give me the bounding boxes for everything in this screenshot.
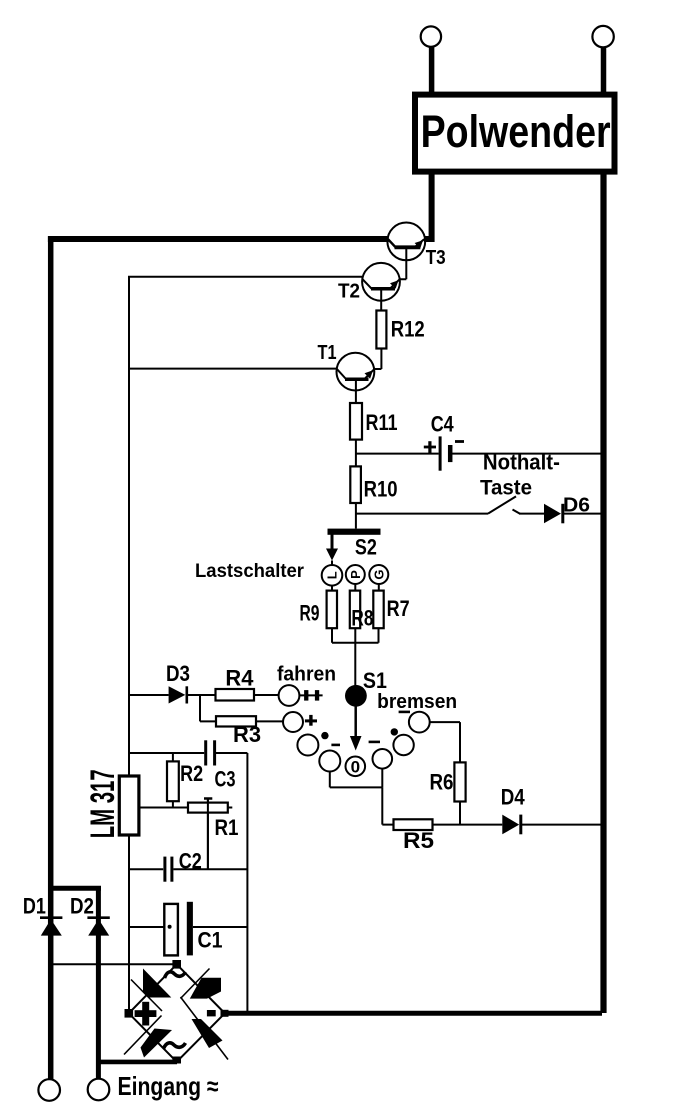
contact arc 3 xyxy=(297,735,318,756)
wire R9 R7 bottom U join xyxy=(332,628,379,643)
bridge tilde bottom xyxy=(164,1043,186,1049)
resistor R10 xyxy=(350,466,361,503)
regulator LM317 xyxy=(119,776,139,835)
wire inner right rail xyxy=(246,753,248,1011)
resistor R9 xyxy=(327,591,337,629)
contact P (Lastschalter) xyxy=(346,565,365,584)
bridge diode SW xyxy=(141,1029,173,1058)
svg-text:S1: S1 xyxy=(363,668,387,693)
wire T1 emitter to R11 xyxy=(355,379,357,403)
wire R10 to S2 xyxy=(355,503,357,529)
wire left supply rail top horizontal xyxy=(48,236,389,242)
svg-text:C1: C1 xyxy=(198,928,223,953)
mark dot left xyxy=(321,732,328,739)
capacitor C3 xyxy=(206,740,215,765)
switch S1 arrow xyxy=(350,707,362,751)
wire C4 row right xyxy=(452,453,601,455)
contact arc 6 xyxy=(393,735,413,755)
bridge diode SE xyxy=(192,1019,223,1048)
svg-text:D6: D6 xyxy=(563,495,590,517)
wire D1-D2 top connector xyxy=(48,886,101,891)
wire node base rail (T2/T1 base vertical rail x=129) xyxy=(129,277,363,1012)
svg-text:Polwender: Polwender xyxy=(421,106,611,157)
svg-text:D4: D4 xyxy=(501,785,526,810)
svg-text:C4: C4 xyxy=(431,412,455,437)
mark dash right xyxy=(399,711,410,714)
wire S1 lower contacts U join xyxy=(330,769,383,788)
transistor T3 xyxy=(387,223,425,261)
svg-text:D1: D1 xyxy=(23,894,46,919)
contact G (Lastschalter) xyxy=(369,565,388,584)
svg-text:R2: R2 xyxy=(180,761,203,786)
wire R5 to D4 xyxy=(433,824,503,826)
mark dot right xyxy=(391,728,398,735)
resistor R12 xyxy=(376,311,386,349)
svg-text:C3: C3 xyxy=(215,767,236,792)
bridge node right xyxy=(221,1010,229,1017)
svg-text:Eingang ≈: Eingang ≈ xyxy=(118,1071,219,1101)
capacitor C4 xyxy=(424,436,464,470)
transistor T1 xyxy=(337,353,375,391)
wire C1 row xyxy=(129,926,247,928)
wire LM317 adj row xyxy=(140,807,189,809)
wire R11 to R10 xyxy=(355,440,357,467)
svg-text:Nothalt-: Nothalt- xyxy=(483,450,560,475)
diode D6 xyxy=(544,504,563,524)
svg-text:P: P xyxy=(348,570,363,579)
wire bridge bottom to D2 xyxy=(98,1060,177,1065)
bridge plus xyxy=(135,1002,157,1026)
wire C4 row left xyxy=(356,453,439,455)
wire contact stubs to R9 R8 R7 xyxy=(332,584,379,590)
svg-text:R1: R1 xyxy=(215,815,239,840)
bridge rectifier diamond xyxy=(129,964,225,1062)
wire D6 to bus xyxy=(564,513,601,515)
wire D2 rail xyxy=(96,886,101,1078)
mark dash left xyxy=(331,744,340,747)
svg-text:D2: D2 xyxy=(70,894,94,919)
resistor R2 xyxy=(167,761,179,801)
wire left supply rail vertical xyxy=(48,237,54,1080)
wire C3 row xyxy=(129,752,247,754)
switch Nothalt-Taste blade xyxy=(488,496,516,513)
capacitor C2 xyxy=(165,857,172,882)
transistor T2 xyxy=(362,263,400,301)
svg-text:R10: R10 xyxy=(364,476,398,501)
contact row2 xyxy=(283,712,303,732)
switch S2 arrow xyxy=(326,535,338,561)
switch S2 wiper bar xyxy=(328,529,381,535)
wire fahren contact symbol row1 xyxy=(300,694,323,696)
wire R1 right stub xyxy=(228,807,233,809)
svg-text:fahren: fahren xyxy=(277,664,336,686)
contact arc 5 xyxy=(373,749,393,769)
resistor R6 xyxy=(454,762,465,801)
wire D4 to bus xyxy=(522,824,601,826)
terminal bottom-left xyxy=(38,1079,60,1101)
bridge minus xyxy=(207,1010,216,1016)
wire Polwender top pins xyxy=(432,47,604,93)
svg-text:L: L xyxy=(325,571,340,579)
contact L (Lastschalter) xyxy=(322,565,343,586)
bridge diode wire NW xyxy=(131,980,162,1012)
diode D2 xyxy=(87,918,109,936)
resistor R4 xyxy=(216,689,255,701)
wire T2 emitter to R12 xyxy=(380,289,382,311)
wire R2 stubs xyxy=(172,753,174,808)
contact bremsen xyxy=(409,712,430,733)
wire bridge top AC input xyxy=(52,963,173,965)
wire R3 to contact row2 xyxy=(256,720,283,722)
svg-text:S2: S2 xyxy=(355,534,377,559)
resistor R3 xyxy=(216,716,256,726)
contact symbol plus row2 xyxy=(305,715,317,726)
resistor R11 xyxy=(350,403,362,440)
wire S2 arrow to contact L xyxy=(331,561,333,566)
svg-text:R11: R11 xyxy=(366,410,398,435)
resistor R7 xyxy=(373,591,383,629)
terminal bottom-right xyxy=(88,1079,110,1101)
svg-text:R6: R6 xyxy=(430,770,454,795)
wire down to R5 xyxy=(382,787,393,824)
svg-text:R3: R3 xyxy=(233,722,261,747)
svg-text:T3: T3 xyxy=(426,247,446,269)
wire T3 emitter to T2 collector xyxy=(399,247,407,279)
bridge diode NE xyxy=(190,978,221,999)
wire T1 base xyxy=(129,368,337,370)
wire D3 row from rail xyxy=(129,694,169,696)
svg-text:R9: R9 xyxy=(300,601,320,626)
bridge diode NW xyxy=(143,969,171,998)
wire right bus xyxy=(600,174,606,1013)
svg-text:R4: R4 xyxy=(225,666,254,691)
wire bremsen contact to R6 xyxy=(430,722,460,762)
wire C2 row xyxy=(129,868,247,870)
switch Nothalt-Taste contact tick xyxy=(513,510,521,514)
mark dash middle xyxy=(369,741,380,744)
svg-text:D3: D3 xyxy=(166,661,190,686)
switch S1 knob xyxy=(345,685,367,707)
wire Nothalt row xyxy=(356,513,488,515)
diode D1 xyxy=(40,918,62,936)
svg-text:LM 317: LM 317 xyxy=(84,769,122,838)
contact 0 xyxy=(346,757,366,777)
wire bridge output right xyxy=(225,1011,602,1016)
capacitor C1 electrolytic xyxy=(164,902,193,956)
svg-text:bremsen: bremsen xyxy=(377,691,457,713)
bridge diode wire NE xyxy=(181,969,210,999)
diode D3 xyxy=(169,686,187,703)
wire R4 to fahren contact xyxy=(254,694,278,696)
bridge node bottom xyxy=(172,1057,181,1064)
potentiometer R1 xyxy=(188,799,228,870)
wire R1 wiper xyxy=(207,799,209,870)
svg-text:R7: R7 xyxy=(387,596,410,621)
svg-text:Lastschalter: Lastschalter xyxy=(195,561,305,582)
contact symbol double bars row1 xyxy=(304,690,319,701)
contact arc 4 xyxy=(319,751,340,772)
wire R6 bottom xyxy=(459,802,461,825)
svg-text:C2: C2 xyxy=(179,848,202,873)
terminal top-left xyxy=(421,26,441,46)
resistor R5 xyxy=(394,819,433,830)
bridge node left xyxy=(125,1009,134,1018)
terminal top-right xyxy=(592,26,613,47)
diode D4 xyxy=(502,815,521,835)
contact fahren row1 xyxy=(279,685,300,706)
wire switch to D6 xyxy=(519,513,544,515)
svg-text:R12: R12 xyxy=(391,317,425,342)
svg-text:0: 0 xyxy=(351,757,360,776)
svg-text:R5: R5 xyxy=(403,828,434,853)
svg-text:T2: T2 xyxy=(338,281,360,303)
resistor R8 xyxy=(350,591,360,629)
bridge tilde top xyxy=(165,972,186,978)
svg-text:R8: R8 xyxy=(351,606,373,631)
wire R8 down to S1 xyxy=(354,628,356,685)
svg-text:T1: T1 xyxy=(318,342,337,364)
wire T1 collector to R12 bottom xyxy=(374,349,381,370)
svg-text:G: G xyxy=(371,569,386,579)
svg-text:Taste: Taste xyxy=(480,477,532,500)
wire D3 to junction xyxy=(188,695,216,721)
bridge diode wire SW xyxy=(124,1016,162,1055)
bridge diode wire SE xyxy=(181,997,229,1060)
box Polwender xyxy=(415,95,615,172)
bridge node top xyxy=(172,960,181,969)
wire Polwender left pin to T3 xyxy=(424,174,432,239)
